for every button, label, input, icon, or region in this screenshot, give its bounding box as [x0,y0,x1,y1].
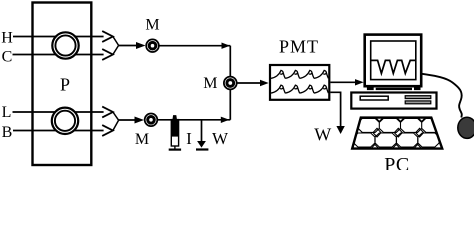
svg-text:W: W [314,125,331,145]
cell P [33,3,92,166]
mirror M top [146,39,159,52]
monitor screen [371,41,416,80]
wire bottom M to corner [158,119,231,121]
svg-text:PMT: PMT [279,37,319,57]
beam B [13,130,104,132]
waste arrow W left [196,120,208,150]
chevron arrow H [102,31,113,42]
beam H [13,36,104,38]
key row 2 [354,133,439,147]
chevron arrow B [102,125,113,136]
diamonds [372,114,426,151]
converge lines bottom [113,112,119,131]
converge lines top [113,37,119,55]
waveform [371,60,416,73]
svg-text:L: L [2,104,12,121]
PMT box [270,65,329,100]
mirror M bottom [145,114,158,127]
svg-text:I: I [186,129,192,148]
wire corner up to mixer [229,90,231,120]
wire corner down to mixer [229,46,231,76]
chevron arrow C [102,49,113,60]
window top [52,32,78,58]
mouse cable [422,74,462,118]
wire top M to corner [159,45,230,47]
injector I (syringe) [169,115,181,150]
window bottom [52,108,78,134]
svg-text:M: M [203,75,217,92]
keyboard [352,114,443,151]
wave row 1 [271,70,329,78]
floppy drive [360,96,388,100]
mouse [458,117,474,138]
monitor stand [367,87,374,90]
wave row 2 [271,85,329,93]
arrow into top mirror M [119,45,138,47]
beam L [13,111,104,113]
svg-text:M: M [145,17,159,34]
svg-text:PC: PC [384,154,409,170]
svg-text:W: W [212,129,229,148]
vent slot 1 [405,96,431,99]
monitor [365,35,422,87]
beam C [13,54,104,56]
system unit [351,93,436,109]
arrow PMT to monitor [330,81,355,83]
svg-text:M: M [135,131,149,148]
svg-text:H: H [1,29,13,46]
mixer mirror M middle [224,77,237,90]
waste arrow W right [336,126,344,134]
arrow into bottom mirror M [119,119,136,121]
arrow mixer to PMT [237,82,261,84]
chevron arrow L [102,107,113,118]
svg-text:B: B [2,124,13,141]
vent slot 2 [405,101,431,104]
svg-text:P: P [60,74,70,94]
svg-text:C: C [2,48,13,65]
key row 1 [358,118,443,132]
waste wire from PMT [330,92,340,127]
